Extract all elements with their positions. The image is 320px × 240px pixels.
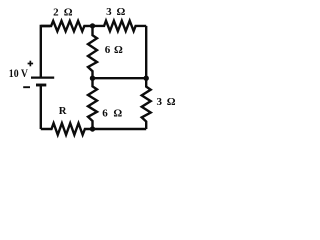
resistor 6 ohm lower (vertical, middle) (88, 78, 97, 129)
label 2 ohm value (53, 7, 73, 19)
svg-text:Ω: Ω (167, 96, 176, 108)
wire right rail upper (145, 26, 147, 78)
battery V1 short plate (-) (36, 84, 46, 87)
label 6 ohm upper value (105, 44, 123, 56)
svg-text:6: 6 (102, 107, 108, 119)
resistor 3 ohm right (vertical) (142, 78, 151, 129)
wire top-left corner and left rail upper (battery + lead) (41, 26, 50, 77)
node C junction dot (144, 76, 149, 81)
svg-text:R: R (59, 105, 67, 117)
wire left rail lower (40, 86, 42, 129)
svg-text:3: 3 (106, 6, 112, 18)
resistor 2 ohm (top left, horizontal) (41, 21, 93, 31)
label 3 ohm right value (157, 96, 176, 108)
svg-text:Ω: Ω (116, 6, 125, 18)
label 3 ohm top value (106, 6, 125, 18)
resistor 6 ohm upper (vertical, middle) (88, 26, 97, 78)
svg-text:Ω: Ω (113, 107, 122, 119)
label 6 ohm lower value (102, 107, 122, 119)
resistor 3 ohm (top right, horizontal) (93, 21, 147, 31)
wire middle horizontal (93, 77, 147, 79)
battery V1 long plate (+) (31, 76, 54, 78)
svg-text:2: 2 (53, 7, 59, 19)
node B junction dot (90, 76, 95, 81)
svg-text:6: 6 (105, 44, 111, 56)
svg-text:Ω: Ω (114, 44, 123, 56)
wire bottom right segment (93, 128, 147, 130)
svg-text:Ω: Ω (64, 7, 73, 19)
battery minus sign (23, 86, 30, 88)
svg-text:10 V: 10 V (9, 68, 29, 80)
node A junction dot (90, 23, 95, 28)
node D junction dot (90, 126, 95, 131)
battery plus sign (28, 61, 33, 67)
svg-text:3: 3 (157, 96, 163, 108)
resistor R (bottom, horizontal) (41, 123, 93, 135)
